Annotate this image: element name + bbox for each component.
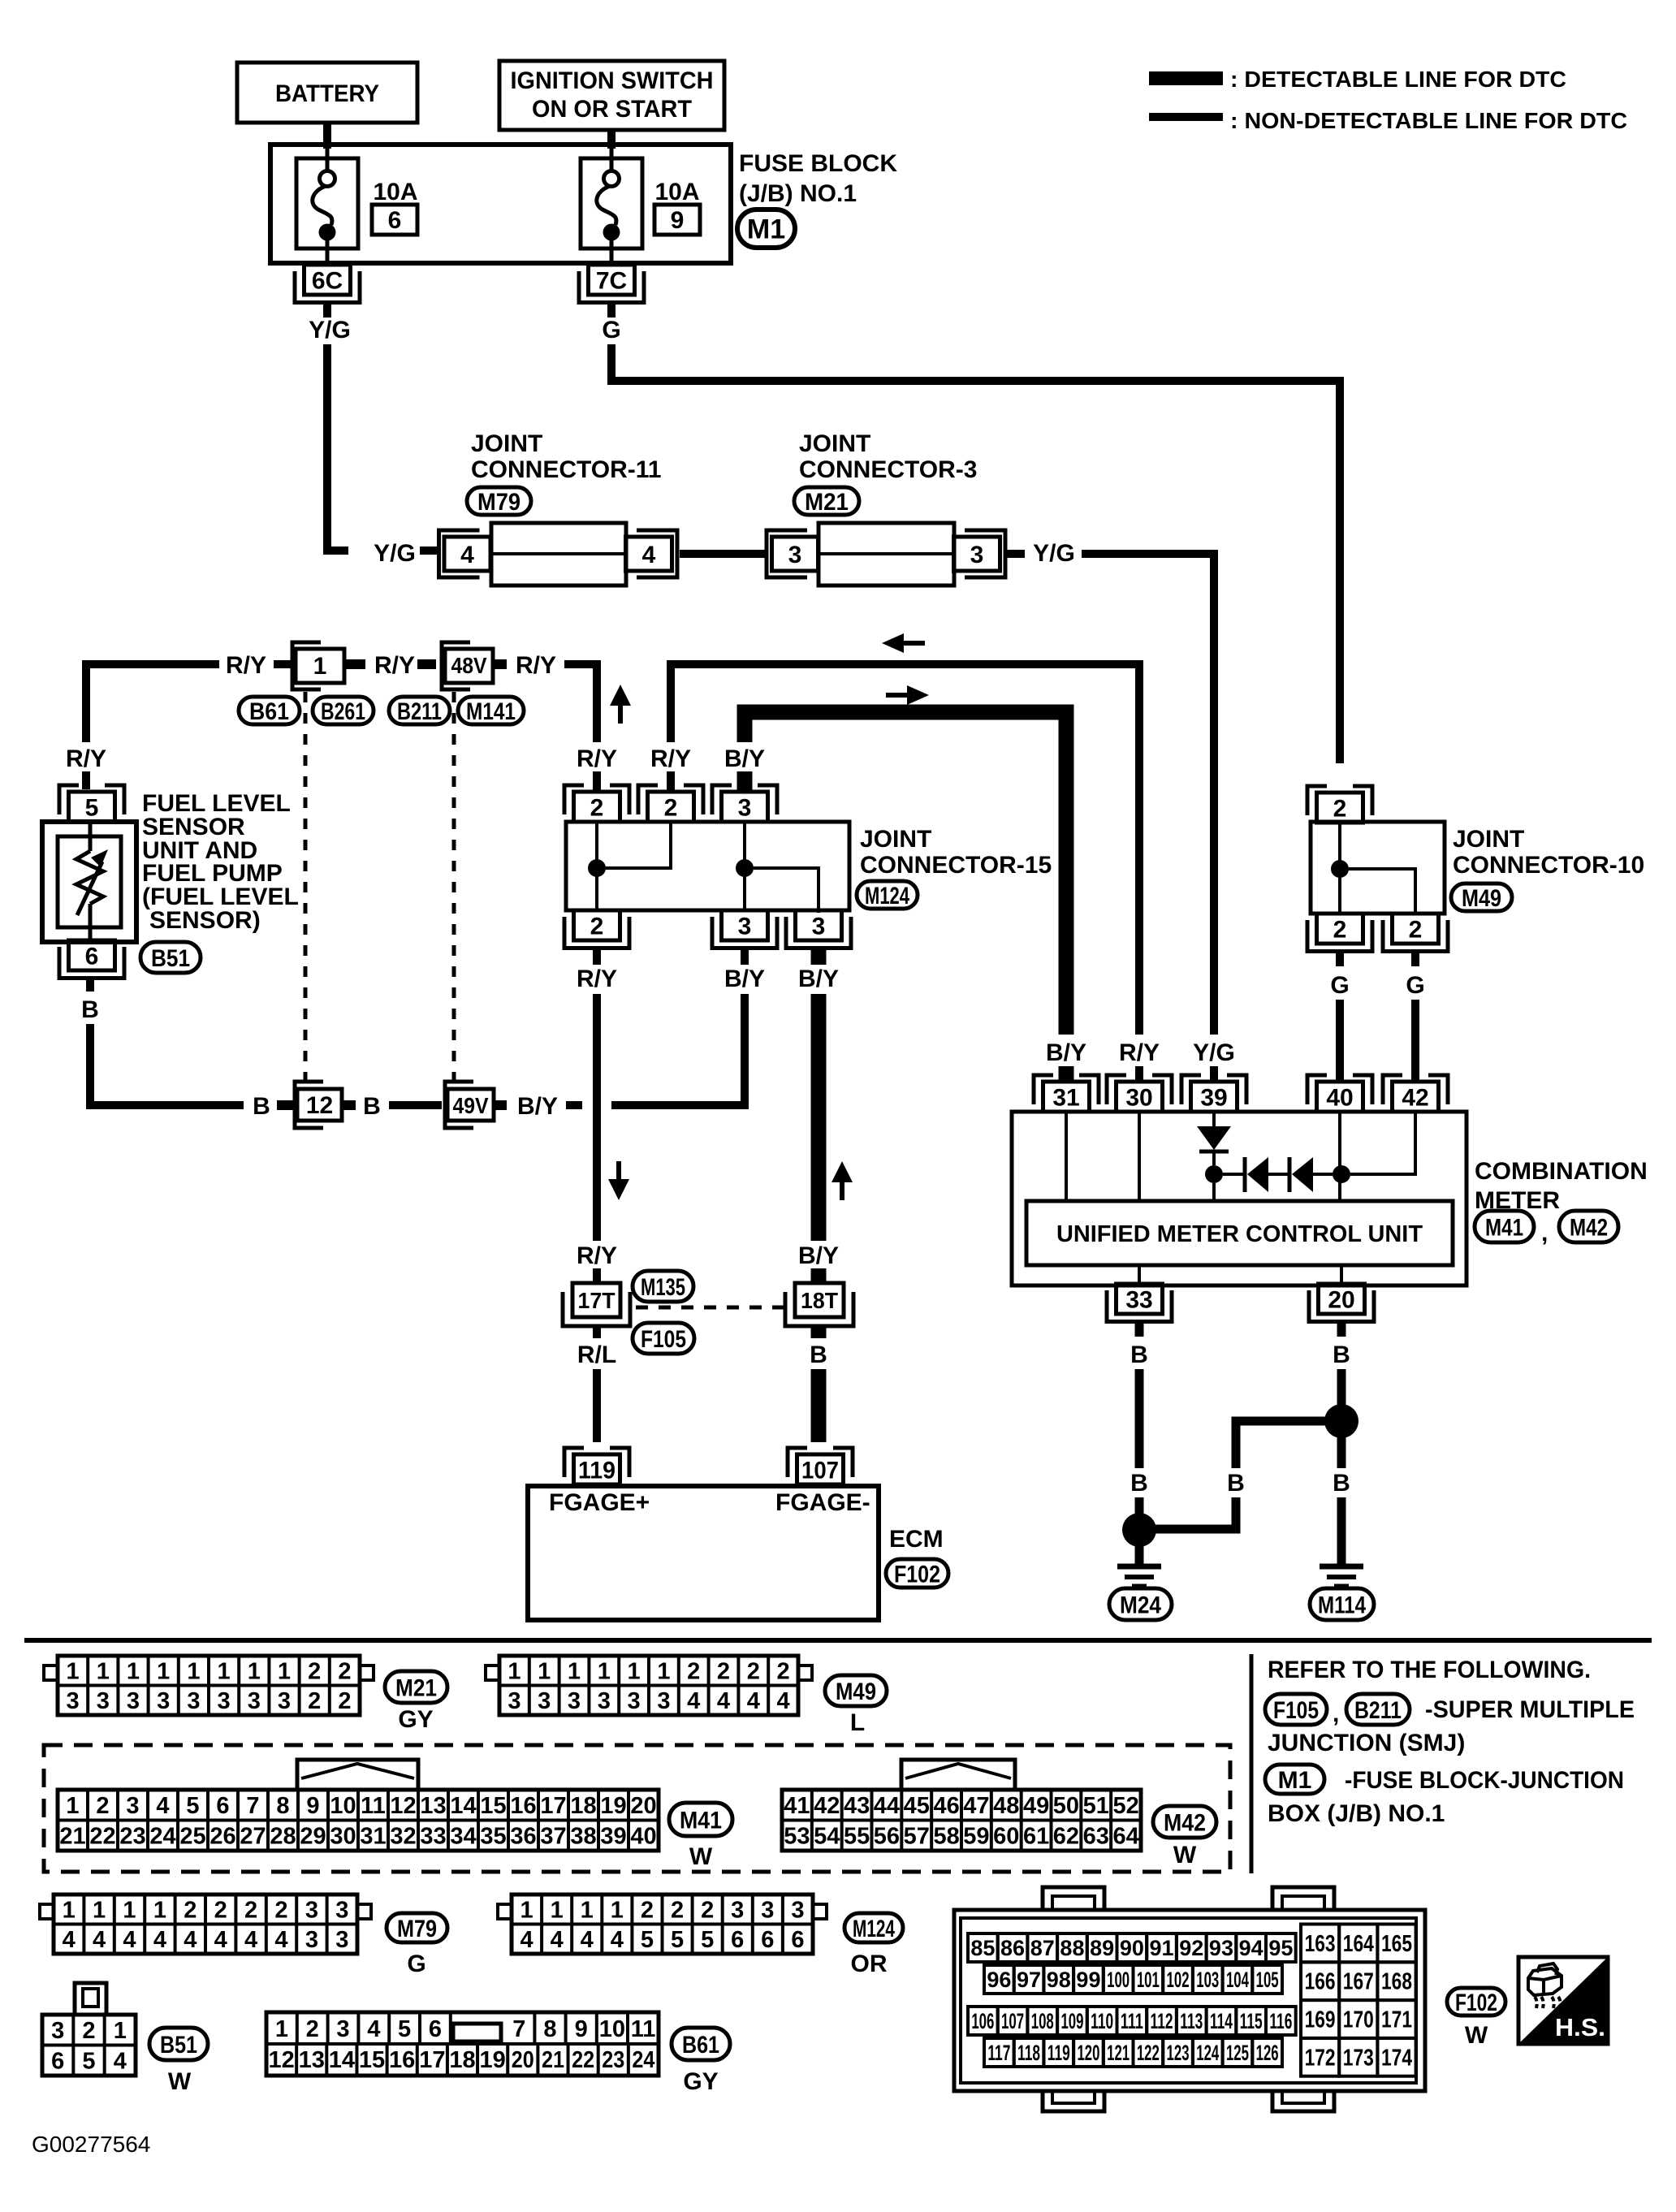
svg-text:47: 47 [963,1793,989,1819]
svg-text:24: 24 [632,2047,654,2073]
connector M49 oval bottom [825,1675,887,1706]
svg-text:M1: M1 [747,214,785,245]
wire R/Y dash before connector 1 [274,660,291,668]
svg-text:1: 1 [275,2016,288,2042]
svg-text:4: 4 [520,1927,533,1953]
svg-text:42: 42 [1402,1084,1428,1111]
svg-text:W: W [1465,2022,1488,2049]
svg-text:48V: 48V [451,653,487,678]
svg-text:REFER TO THE FOLLOWING.: REFER TO THE FOLLOWING. [1268,1657,1591,1683]
svg-text:112: 112 [1151,2009,1173,2033]
svg-text:6: 6 [216,1793,229,1819]
svg-text:BATTERY: BATTERY [275,80,379,107]
svg-text:B: B [81,996,99,1023]
svg-text:119: 119 [1047,2041,1070,2065]
svg-text:1: 1 [598,1659,611,1685]
svg-text:FGAGE+: FGAGE+ [549,1489,650,1516]
connector M135 oval [633,1271,693,1302]
connector M49 oval [1451,884,1512,911]
wire B from dot to M114 [1337,1437,1346,1468]
connector M21 oval bottom [385,1671,447,1703]
wire battery to fuse block [323,123,331,149]
svg-text:B/Y: B/Y [798,1242,839,1269]
svg-text:20: 20 [630,1793,656,1819]
svg-text:26: 26 [209,1824,235,1850]
svg-text:M141: M141 [466,698,516,725]
connector M124 pin grid [512,1894,813,1954]
svg-text:1: 1 [278,1659,291,1685]
connector M41 oval bottom [669,1803,732,1836]
svg-text:15: 15 [359,2047,385,2073]
connector M24 oval [1109,1588,1172,1620]
svg-text:167: 167 [1343,1969,1374,1995]
svg-text:7: 7 [246,1793,259,1819]
svg-text:34: 34 [450,1824,476,1850]
svg-text:14: 14 [329,2047,355,2073]
svg-text:G: G [407,1951,425,1977]
svg-text:20: 20 [1328,1286,1354,1313]
svg-text:H.S.: H.S. [1555,2013,1605,2041]
svg-text:14: 14 [450,1793,476,1819]
svg-text:174: 174 [1381,2045,1412,2071]
svg-text:2: 2 [306,2016,319,2042]
fuse F2 10A [581,158,642,248]
svg-text:59: 59 [963,1824,989,1850]
svg-text:1: 1 [218,1659,231,1685]
wire stub into pin 5 [82,771,90,789]
svg-text:F102: F102 [1455,1990,1497,2016]
svg-text:3: 3 [335,1927,348,1953]
wire ignition to fuse block [607,130,616,149]
JC-11 body [491,523,626,585]
svg-text:2: 2 [1333,795,1347,822]
svg-text:4: 4 [244,1927,257,1953]
svg-text:17T: 17T [578,1288,616,1313]
wire Y/G from 6C [327,344,348,551]
connector M79 oval [467,487,531,515]
wire stub below pin 2c [593,948,601,965]
svg-text:6: 6 [429,2016,442,2042]
svg-text:116: 116 [1269,2009,1292,2033]
svg-text:7: 7 [512,2016,525,2042]
JC-15 junction dot left [588,859,606,877]
svg-text:5: 5 [398,2016,411,2042]
svg-text:G: G [1330,972,1349,999]
connector M42 pin grid [782,1790,1141,1851]
connector B61 oval [239,697,300,724]
svg-text:M21: M21 [395,1674,437,1701]
svg-text:1: 1 [127,1659,140,1685]
svg-text:IGNITION SWITCH: IGNITION SWITCH [511,67,714,94]
svg-text:4: 4 [581,1927,594,1953]
svg-text:19: 19 [600,1793,626,1819]
svg-text:12: 12 [268,2047,294,2073]
svg-text:B51: B51 [151,945,190,972]
svg-text:25: 25 [179,1824,205,1850]
connector B51 tab [75,1983,106,2015]
svg-text:10A: 10A [654,179,699,205]
svg-text:B61: B61 [682,2032,719,2059]
svg-text:1: 1 [581,1898,594,1924]
svg-text:48: 48 [993,1793,1019,1819]
svg-text:W: W [689,1843,713,1870]
svg-text:124: 124 [1196,2041,1219,2065]
SMJ connector 49V [445,1082,473,1128]
svg-text:B: B [1333,1470,1350,1497]
svg-text:R/Y: R/Y [1119,1039,1160,1066]
wire B/Y dash after label [566,1101,582,1109]
svg-text:17: 17 [419,2047,445,2073]
connector M49 pin grid [499,1656,798,1715]
svg-text:21: 21 [59,1824,85,1850]
svg-text:118: 118 [1017,2041,1040,2065]
connector B61 oval bottom [672,2028,730,2060]
svg-text:2: 2 [687,1659,700,1685]
svg-text:7C: 7C [596,267,627,294]
svg-text:4: 4 [153,1927,166,1953]
svg-text:42: 42 [814,1793,840,1819]
svg-text:98: 98 [1047,1968,1071,1992]
svg-text:169: 169 [1305,2007,1336,2033]
arrow up on B/Y wire [832,1161,853,1182]
svg-text:1: 1 [313,653,327,680]
svg-text:2: 2 [701,1898,714,1924]
unified meter control unit box [1026,1201,1453,1265]
svg-text:106: 106 [971,2009,994,2033]
svg-text:3: 3 [97,1688,110,1714]
svg-text:1: 1 [97,1659,110,1685]
svg-text:30: 30 [1125,1084,1152,1111]
wire JC-11 to JC-3 [680,550,766,558]
svg-text:86: 86 [1000,1936,1025,1960]
svg-text:38: 38 [570,1824,596,1850]
svg-text:G: G [1406,972,1424,999]
meter internal wire 39 [1212,1112,1216,1126]
svg-text:4: 4 [611,1927,624,1953]
fuel sensor unit body [42,822,136,942]
svg-text:107: 107 [1001,2009,1024,2033]
svg-text:2: 2 [184,1898,197,1924]
svg-text:3: 3 [335,1898,348,1924]
svg-text:1: 1 [63,1898,76,1924]
wire B into M24 dot [1135,1497,1144,1515]
svg-text:1: 1 [67,1659,80,1685]
svg-text:9: 9 [306,1793,319,1819]
meter internal wire 20 [1340,1265,1343,1285]
svg-text:2: 2 [641,1898,654,1924]
svg-text:2: 2 [747,1659,760,1685]
svg-text:5: 5 [641,1927,654,1953]
svg-text:Y/G: Y/G [1193,1039,1235,1066]
svg-text:3: 3 [126,1793,139,1819]
svg-text:36: 36 [510,1824,536,1850]
svg-text:51: 51 [1083,1793,1109,1819]
svg-text:24: 24 [149,1824,175,1850]
connector M21 pin grid [58,1656,360,1715]
svg-text:12: 12 [306,1092,333,1119]
svg-text:37: 37 [540,1824,566,1850]
svg-text:R/Y: R/Y [577,1242,617,1269]
fuse F1 number box 6 [372,205,417,235]
pin 119 [564,1448,584,1477]
svg-text:58: 58 [933,1824,959,1850]
JC-15 body [566,822,849,910]
svg-text:100: 100 [1107,1968,1130,1992]
dashed link 17T-18T [636,1306,785,1310]
svg-text:4: 4 [777,1688,790,1714]
svg-text:2: 2 [338,1659,351,1685]
svg-text:18T: 18T [801,1288,838,1313]
svg-text:122: 122 [1137,2041,1160,2065]
svg-text:3: 3 [538,1688,551,1714]
wire stub 6C [323,302,331,318]
dashed line B211/M141 [452,692,456,1080]
separator line [24,1638,1652,1643]
wire B stub below 20 [1337,1321,1346,1337]
svg-text:R/Y: R/Y [577,966,617,992]
svg-text:M49: M49 [1462,885,1501,912]
svg-text:39: 39 [600,1824,626,1850]
svg-text:M42: M42 [1164,1809,1206,1836]
svg-text:2: 2 [274,1898,287,1924]
svg-text:29: 29 [300,1824,326,1850]
svg-text:165: 165 [1381,1931,1412,1957]
svg-text:CONNECTOR-11: CONNECTOR-11 [471,456,662,483]
arrow down on R/Y wire [608,1179,629,1200]
H.S. hand-symbol icon [1518,1957,1608,2044]
svg-text:3: 3 [568,1688,581,1714]
connector B261 oval [313,697,374,724]
svg-text:M135: M135 [641,1274,685,1301]
svg-text:52: 52 [1112,1793,1138,1819]
svg-text:6: 6 [388,207,402,234]
svg-text:119: 119 [578,1457,616,1484]
svg-text:M124: M124 [865,883,909,909]
connector M1 oval [737,210,795,248]
wire B middle branch upper [1236,1421,1326,1468]
meter internal wire 31 [1065,1112,1068,1201]
svg-text:94: 94 [1239,1936,1263,1960]
JC-15 internal wire 2b [606,822,671,868]
pin 5 [59,785,79,814]
svg-text:3: 3 [761,1898,774,1924]
svg-text:1: 1 [551,1898,564,1924]
svg-text:22: 22 [572,2047,594,2073]
wire R/Y dash before 48V [417,659,436,669]
JC-15 junction dot right [736,859,754,877]
svg-text:4: 4 [687,1688,700,1714]
wire G stub below JC-10 right [1411,951,1419,966]
pin 20 [1319,1284,1365,1314]
dashed group box M41 M42 [44,1745,1230,1872]
svg-text:2: 2 [308,1688,321,1714]
wire R/Y from JC-15 pin 2b to pin 30 [671,664,1139,1035]
svg-text:56: 56 [874,1824,900,1850]
svg-text:3: 3 [738,794,752,821]
svg-text:10: 10 [330,1793,356,1819]
svg-text:54: 54 [814,1824,840,1850]
svg-text:63: 63 [1083,1824,1109,1850]
svg-text:Y/G: Y/G [1033,540,1075,567]
svg-text:170: 170 [1343,2007,1374,2033]
svg-text:17: 17 [540,1793,566,1819]
svg-text:3: 3 [278,1688,291,1714]
wire B/Y thick JC-15 to 18T [811,994,827,1241]
wire G stub below JC-10 left [1336,951,1344,966]
meter internal wire 42 [1350,1112,1415,1174]
JC-11 pin 4 left [439,530,480,577]
wire R/Y JC-15 to 17T [593,994,601,1241]
wire G to pin 40 [1336,1000,1344,1082]
svg-text:6C: 6C [312,267,343,294]
svg-text:1: 1 [611,1898,624,1924]
svg-text:-FUSE BLOCK-JUNCTION: -FUSE BLOCK-JUNCTION [1345,1767,1624,1794]
svg-text:JOINT: JOINT [1453,826,1524,853]
connector B211 oval [389,697,450,724]
svg-text:23: 23 [602,2047,624,2073]
svg-text:85: 85 [970,1936,995,1960]
wire R/Y stub into 17T [593,1268,601,1283]
svg-text:6: 6 [761,1927,774,1953]
JC-15 internal wire 3a [743,822,746,910]
svg-text:JOINT: JOINT [471,430,542,457]
svg-text:1: 1 [508,1659,521,1685]
svg-text:4: 4 [747,1688,760,1714]
svg-text:B: B [1333,1341,1350,1368]
wire Y/G stub after JC-3 [1007,550,1025,558]
pin 40 [1307,1075,1327,1104]
svg-text:171: 171 [1381,2007,1412,2033]
arrow right on B/Y line [907,685,929,705]
svg-text:3: 3 [731,1898,744,1924]
svg-text:16: 16 [510,1793,536,1819]
svg-text:92: 92 [1179,1936,1203,1960]
svg-text:1: 1 [187,1659,200,1685]
svg-text:39: 39 [1200,1084,1227,1111]
svg-text:5: 5 [701,1927,714,1953]
wire dot A to diode D2 [1223,1173,1243,1176]
svg-text:23: 23 [119,1824,145,1850]
svg-text:M24: M24 [1120,1592,1161,1618]
wire Y/G dash into JC-11 [420,547,439,555]
svg-text:163: 163 [1305,1931,1336,1957]
connector F102 pin grid [954,1910,1425,2091]
svg-text:FUSE BLOCK: FUSE BLOCK [739,150,897,177]
svg-text:31: 31 [360,1824,386,1850]
diode D2 horizontal [1243,1157,1247,1192]
connector M1 oval refer [1265,1765,1324,1794]
svg-text:1: 1 [123,1898,136,1924]
battery box [237,63,417,123]
svg-text:108: 108 [1031,2009,1054,2033]
svg-text:3: 3 [218,1688,231,1714]
svg-text:9: 9 [575,2016,588,2042]
svg-text:90: 90 [1120,1936,1144,1960]
svg-text:W: W [168,2068,192,2095]
svg-text:B211: B211 [397,698,442,725]
svg-text:3: 3 [248,1688,261,1714]
svg-text:120: 120 [1077,2041,1099,2065]
svg-text:4: 4 [184,1927,197,1953]
svg-text:123: 123 [1167,2041,1190,2065]
wire diode D3 to dot B [1313,1173,1333,1176]
legend non-detectable line bar [1149,113,1223,121]
svg-text:115: 115 [1240,2009,1263,2033]
wire R/Y horizontal left segment [86,664,219,742]
svg-text:G: G [602,317,620,343]
svg-text:166: 166 [1305,1969,1336,1995]
pin 6 [69,940,115,970]
pin 7C [589,265,635,295]
ground junction dot M114 [1324,1404,1359,1438]
wire B/Y thick stub into 18T [811,1268,827,1283]
svg-text:2: 2 [671,1898,684,1924]
svg-text:3: 3 [598,1688,611,1714]
svg-text:89: 89 [1090,1936,1114,1960]
svg-text:Y/G: Y/G [309,317,351,343]
svg-text:B: B [1130,1470,1148,1497]
ground symbol M24 [1117,1564,1161,1570]
connector M41 pin grid [58,1790,659,1851]
wire stub below pin 3b [741,948,749,965]
svg-text:168: 168 [1381,1969,1412,1995]
pin 39 [1181,1075,1201,1104]
svg-text:M41: M41 [1485,1214,1523,1241]
JC-10 pin 2 top [1307,786,1327,815]
connector M79 oval bottom [387,1913,447,1942]
svg-text:2: 2 [777,1659,790,1685]
svg-text:3: 3 [738,913,752,940]
svg-text:3: 3 [812,913,826,940]
pin 30 [1107,1075,1126,1104]
svg-text:35: 35 [480,1824,506,1850]
svg-text:27: 27 [240,1824,266,1850]
ground junction dot M24 [1122,1513,1156,1547]
svg-text:6: 6 [85,943,99,970]
svg-text:3: 3 [305,1927,318,1953]
wire diode D2 to D3 [1268,1173,1288,1176]
svg-text:6: 6 [731,1927,744,1953]
svg-text:104: 104 [1226,1968,1249,1992]
wire stub pin 2b [667,771,675,791]
svg-text:105: 105 [1256,1968,1279,1992]
svg-text:97: 97 [1017,1968,1041,1992]
svg-text:M49: M49 [836,1678,876,1705]
svg-text:114: 114 [1210,2009,1233,2033]
svg-text:44: 44 [874,1793,900,1819]
svg-text:5: 5 [82,2049,95,2075]
svg-text:B/Y: B/Y [798,966,839,992]
svg-text:5: 5 [85,794,99,821]
svg-text:3: 3 [157,1688,170,1714]
wire R/L to ECM 119 [593,1369,601,1442]
svg-text:93: 93 [1209,1936,1233,1960]
pin 33 [1117,1284,1163,1314]
svg-text:3: 3 [508,1688,521,1714]
fuse block J/B no.1 box [270,145,731,263]
svg-text:109: 109 [1060,2009,1083,2033]
JC-3 pin 3 left [767,530,807,577]
svg-text:3: 3 [187,1688,200,1714]
svg-text:41: 41 [784,1793,810,1819]
wire B middle branch lower [1155,1497,1236,1529]
meter junction dot A [1205,1165,1223,1183]
JC-15 internal wire 3c [754,868,819,913]
svg-text:B/Y: B/Y [1046,1039,1086,1066]
svg-text:16: 16 [389,2047,415,2073]
svg-text:20: 20 [512,2047,534,2073]
svg-text:M114: M114 [1318,1592,1366,1618]
